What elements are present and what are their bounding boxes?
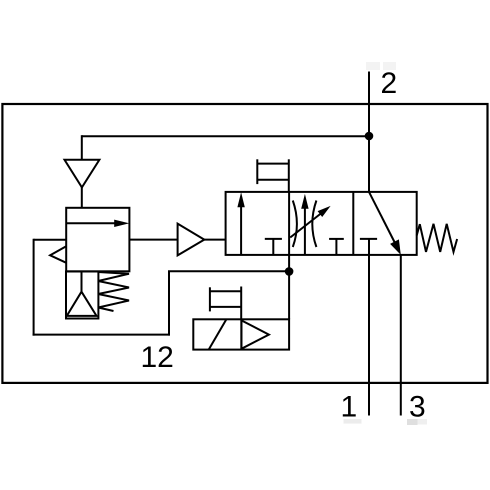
junction dot (365, 132, 374, 141)
mid position seat (329, 239, 344, 255)
pressure regulator body (66, 208, 129, 271)
regulator flow arrow (66, 220, 129, 227)
pilot valve divider (240, 319, 242, 349)
pilot node wire to pilot valve (288, 255, 290, 319)
smudge below 1 (344, 419, 362, 424)
wire feedback mid vertical (168, 271, 170, 335)
enclosure border (2, 104, 487, 383)
pilot solenoid valve body (193, 319, 289, 349)
node 3 port line (400, 255, 402, 416)
left position seat (265, 239, 282, 255)
supply flow triangle (65, 160, 100, 188)
svg-text:3: 3 (409, 390, 426, 423)
wire down to supply triangle (81, 135, 83, 160)
left position flow arrow (237, 192, 244, 255)
throttle adjust arrow (290, 206, 330, 238)
amplifier triangle (178, 224, 205, 256)
svg-text:2: 2 (380, 67, 397, 100)
regulator relief arrowhead (50, 246, 66, 262)
wire feedback to pilot node (168, 270, 289, 272)
wire triangle to regulator (81, 187, 83, 208)
wire top horizontal (82, 135, 369, 137)
right position seat (360, 239, 377, 255)
pilot valve manual override (210, 287, 241, 320)
throttle arc left (293, 201, 297, 248)
main valve body (226, 192, 417, 255)
throttle arc right (312, 201, 316, 248)
smudge above 2 (366, 62, 396, 70)
regulator exhaust stem (81, 272, 83, 292)
main valve divider left (288, 192, 290, 255)
mid position flow arrow (301, 194, 308, 255)
regulator spring (98, 272, 129, 311)
right position exhaust path 2-3 (369, 192, 401, 255)
pilot junction dot (285, 267, 294, 276)
main valve manual override (257, 159, 289, 192)
wire feedback left vertical (33, 239, 35, 336)
wire regulator output (129, 239, 177, 241)
wire feedback bottom horizontal (33, 334, 170, 336)
main valve return spring (417, 224, 457, 252)
solenoid coil diagonal (209, 319, 227, 349)
wire amplifier to valve (204, 239, 226, 241)
svg-text:1: 1 (340, 390, 357, 423)
node 2 port line (top) (368, 72, 370, 192)
wire regulator feedback left (34, 239, 67, 241)
regulator exhaust box (66, 272, 98, 319)
main valve divider right (352, 192, 354, 255)
smudge below 3 (407, 419, 427, 425)
regulator exhaust triangle (67, 292, 97, 316)
node 1 port line (368, 255, 370, 416)
pilot amplifier triangle (241, 320, 269, 348)
svg-text:12: 12 (141, 341, 174, 374)
